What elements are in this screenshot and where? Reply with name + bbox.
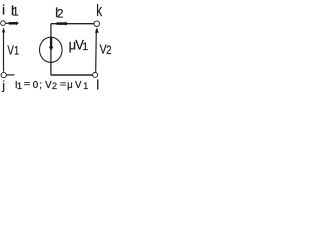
source internal arrow (points down) <box>49 38 54 51</box>
svg-text:j: j <box>1 79 5 93</box>
wire top (from source to terminal k) <box>51 23 94 25</box>
svg-text:I1: I1 <box>11 3 19 18</box>
terminal l <box>93 72 98 77</box>
current arrow I2 on top wire <box>56 22 68 26</box>
svg-text:V2: V2 <box>100 42 112 57</box>
controlled voltage source (circle) <box>40 37 63 62</box>
voltage arrow V2 (between k and l) <box>95 27 99 72</box>
svg-text:i: i <box>2 2 5 18</box>
svg-text:k: k <box>96 2 102 21</box>
equals sign 2 <box>60 82 66 85</box>
wire bottom (from source to terminal l) <box>51 74 93 76</box>
wire stub at terminal j <box>6 74 14 76</box>
terminal j <box>1 72 6 77</box>
svg-text:V1: V1 <box>7 44 19 58</box>
terminal i <box>1 21 6 26</box>
equals sign 1 <box>24 82 30 85</box>
svg-text:l: l <box>96 77 99 92</box>
wire vertical through source <box>50 24 52 75</box>
current arrow I1 at terminal i <box>6 21 19 25</box>
voltage arrow V1 (between i and j) <box>2 28 5 72</box>
terminal k <box>94 21 100 27</box>
